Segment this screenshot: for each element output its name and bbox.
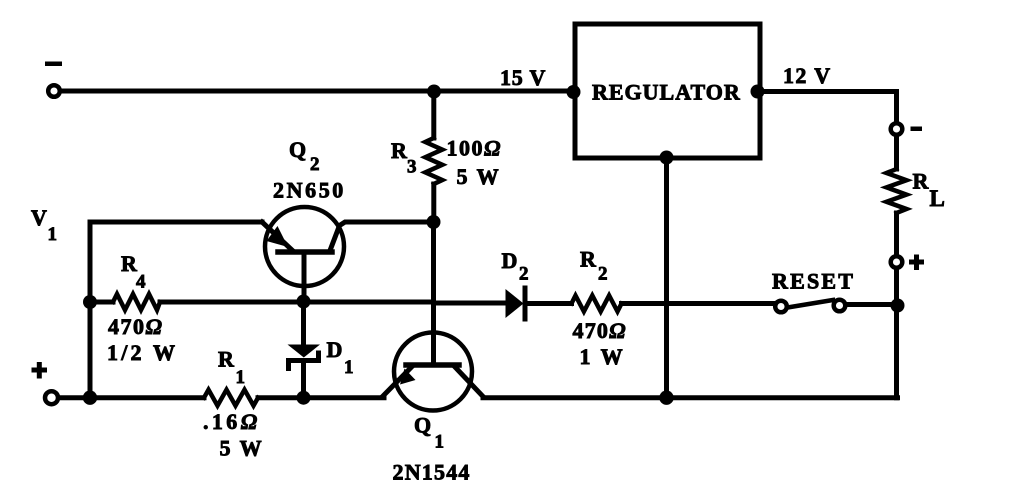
svg-text:3: 3 (407, 157, 417, 178)
svg-text:2: 2 (598, 264, 608, 285)
svg-text:REGULATOR: REGULATOR (592, 80, 741, 105)
svg-text:470Ω: 470Ω (573, 318, 627, 343)
svg-text:5 W: 5 W (457, 164, 501, 189)
svg-text:R: R (580, 247, 597, 272)
svg-text:2: 2 (519, 264, 529, 285)
svg-text:D: D (327, 337, 343, 362)
svg-text:5 W: 5 W (220, 436, 264, 461)
svg-text:2N650: 2N650 (273, 178, 346, 203)
svg-text:1: 1 (344, 357, 354, 378)
svg-text:V: V (31, 205, 47, 230)
svg-text:R: R (913, 169, 930, 194)
svg-text:100Ω: 100Ω (447, 136, 502, 161)
svg-text:12 V: 12 V (783, 63, 832, 88)
svg-text:RESET: RESET (772, 269, 855, 294)
svg-text:1: 1 (48, 224, 58, 245)
svg-text:.16Ω: .16Ω (203, 409, 261, 434)
svg-text:1: 1 (435, 432, 445, 453)
svg-text:L: L (930, 186, 945, 211)
svg-text:1 W: 1 W (580, 344, 626, 369)
svg-text:R: R (218, 347, 235, 372)
svg-text:D: D (502, 248, 518, 273)
svg-text:2N1544: 2N1544 (393, 460, 471, 485)
svg-text:R: R (391, 138, 408, 163)
svg-text:15 V: 15 V (500, 65, 546, 90)
svg-text:Q: Q (414, 413, 431, 438)
svg-text:2: 2 (310, 154, 320, 175)
svg-text:1: 1 (236, 367, 246, 388)
svg-text:470Ω: 470Ω (108, 314, 163, 339)
svg-text:4: 4 (136, 272, 146, 293)
svg-text:Q: Q (289, 137, 306, 162)
svg-text:1/2 W: 1/2 W (107, 340, 178, 365)
